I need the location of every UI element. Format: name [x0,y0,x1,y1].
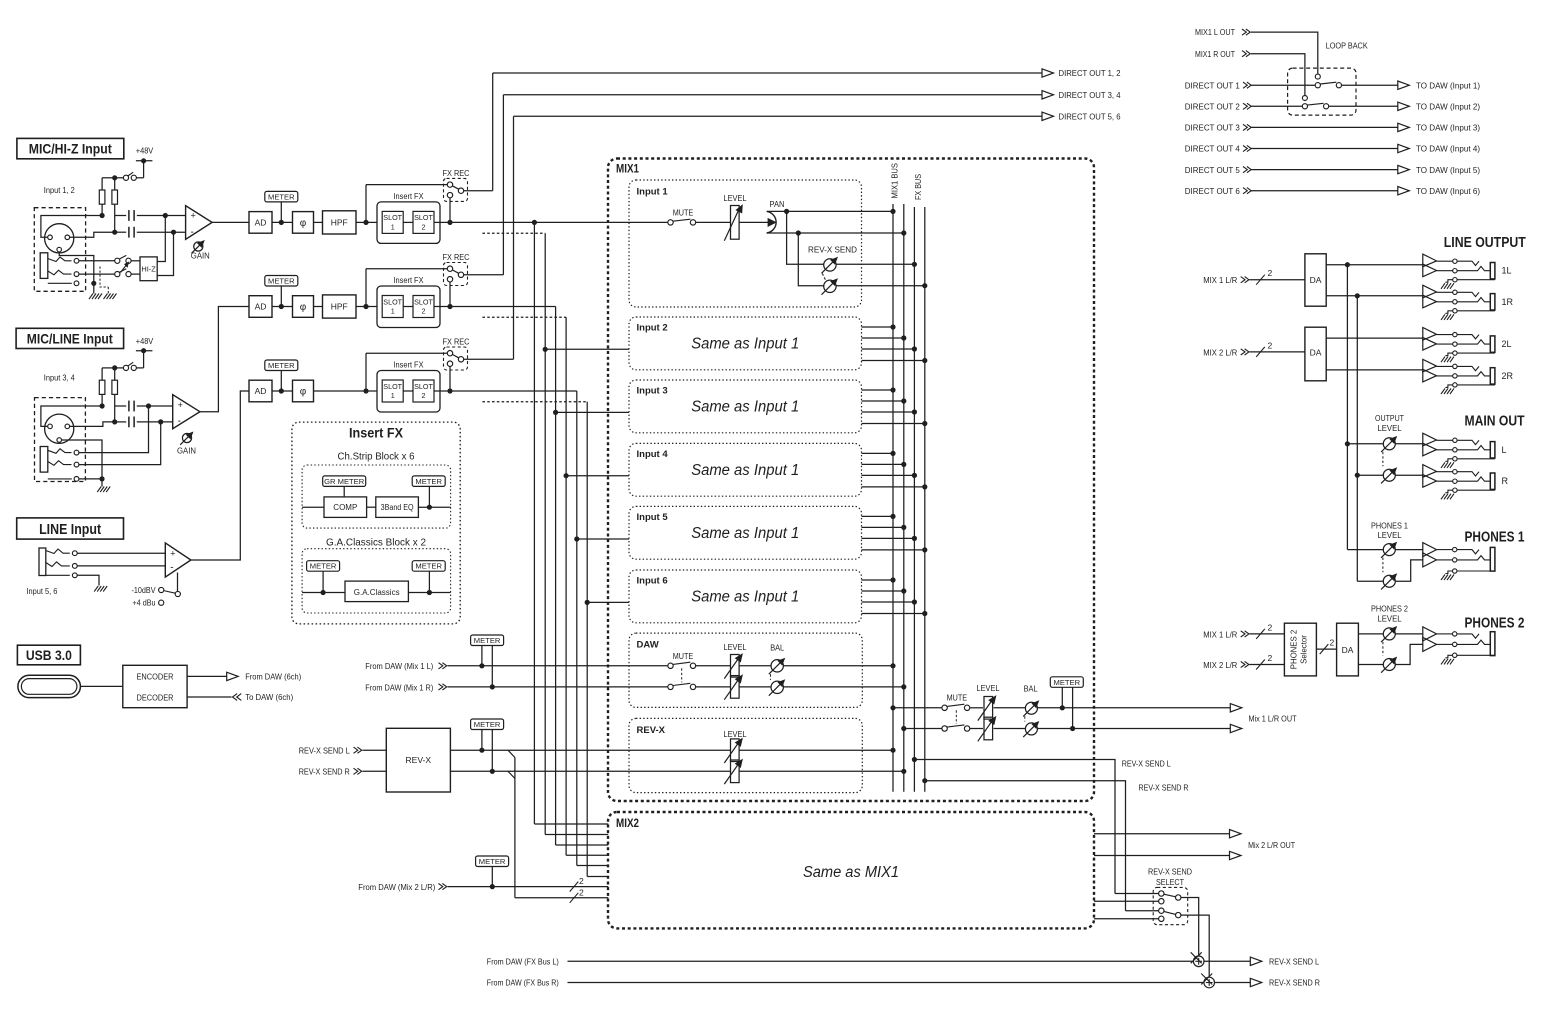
svg-text:METER: METER [268,361,295,370]
svg-text:Same as Input 1: Same as Input 1 [691,336,799,353]
svg-text:Insert FX: Insert FX [394,360,424,370]
svg-text:DIRECT OUT 1: DIRECT OUT 1 [1185,80,1240,90]
svg-text:R: R [1502,476,1509,486]
svg-text:DIRECT OUT 5: DIRECT OUT 5 [1185,165,1240,175]
svg-text:FX REC: FX REC [443,337,470,347]
svg-text:DIRECT OUT 1, 2: DIRECT OUT 1, 2 [1059,68,1121,78]
svg-text:REV-X: REV-X [637,725,666,736]
svg-text:To DAW (6ch): To DAW (6ch) [245,692,293,702]
svg-text:METER: METER [415,562,442,571]
svg-text:+4 dBu: +4 dBu [133,598,156,608]
svg-text:MIX 1 L/R: MIX 1 L/R [1203,629,1237,639]
svg-text:REV-X SEND: REV-X SEND [1148,867,1192,877]
svg-text:Insert FX: Insert FX [394,275,424,285]
svg-text:PHONES 2: PHONES 2 [1371,604,1408,614]
svg-text:DECODER: DECODER [137,693,174,703]
svg-text:HI-Z: HI-Z [141,265,156,274]
svg-text:2: 2 [579,887,584,897]
svg-text:USB 3.0: USB 3.0 [26,647,72,663]
svg-text:+: + [178,400,183,410]
svg-text:Same as Input 1: Same as Input 1 [691,525,799,542]
svg-text:HPF: HPF [331,302,348,312]
svg-text:MAIN OUT: MAIN OUT [1465,414,1525,430]
svg-text:1: 1 [391,222,395,231]
svg-text:+: + [191,211,196,221]
svg-text:MIX2: MIX2 [616,818,639,830]
svg-text:SLOT: SLOT [383,213,402,222]
svg-text:MUTE: MUTE [673,208,694,218]
svg-text:Input 1, 2: Input 1, 2 [44,185,75,195]
svg-text:FX BUS: FX BUS [913,174,923,200]
svg-text:Same as MIX1: Same as MIX1 [803,864,899,881]
svg-text:GAIN: GAIN [177,446,196,456]
svg-text:2: 2 [1268,268,1273,278]
svg-text:2: 2 [1268,622,1273,632]
svg-text:φ: φ [300,218,307,229]
svg-text:LEVEL: LEVEL [1378,423,1402,433]
svg-text:AD: AD [255,217,267,227]
svg-text:MIX1 BUS: MIX1 BUS [890,163,900,199]
svg-text:Selector: Selector [1300,635,1309,664]
svg-text:PHONES 2: PHONES 2 [1290,630,1299,669]
svg-text:METER: METER [479,857,506,866]
svg-text:METER: METER [1054,678,1081,687]
svg-text:METER: METER [474,720,501,729]
svg-text:REV-X SEND L: REV-X SEND L [1269,956,1319,966]
svg-text:-: - [178,416,181,427]
svg-text:FX REC: FX REC [443,168,470,178]
svg-text:1: 1 [391,391,395,400]
svg-text:1L: 1L [1502,266,1512,276]
svg-text:SLOT: SLOT [414,297,433,306]
svg-text:+48V: +48V [136,336,154,346]
svg-text:METER: METER [268,192,295,201]
svg-text:PHONES 1: PHONES 1 [1465,530,1525,546]
svg-text:TO DAW (Input 5): TO DAW (Input 5) [1416,165,1480,175]
svg-text:REV-X SEND: REV-X SEND [808,244,857,254]
svg-text:Same as Input 1: Same as Input 1 [691,399,799,416]
svg-text:DIRECT OUT 3, 4: DIRECT OUT 3, 4 [1059,90,1121,100]
svg-text:SLOT: SLOT [414,213,433,222]
svg-text:DIRECT OUT 4: DIRECT OUT 4 [1185,144,1240,154]
svg-text:LOOP BACK: LOOP BACK [1326,40,1368,50]
svg-text:From DAW (FX Bus L): From DAW (FX Bus L) [487,956,559,966]
svg-text:TO DAW (Input 4): TO DAW (Input 4) [1416,144,1480,154]
svg-text:GAIN: GAIN [191,250,210,260]
svg-text:REV-X SEND L: REV-X SEND L [299,746,350,756]
svg-text:REV-X SEND R: REV-X SEND R [1269,978,1320,988]
svg-text:AD: AD [255,302,267,312]
svg-text:Same as Input 1: Same as Input 1 [691,589,799,606]
svg-text:MIX1: MIX1 [616,164,640,176]
svg-text:LEVEL: LEVEL [1378,613,1402,623]
svg-text:2: 2 [1268,340,1273,350]
svg-text:TO DAW (Input 2): TO DAW (Input 2) [1416,102,1480,112]
svg-text:From DAW (FX Bus R): From DAW (FX Bus R) [487,978,559,988]
svg-text:1: 1 [391,307,395,316]
svg-text:2: 2 [422,391,426,400]
svg-text:From DAW (Mix 1 R): From DAW (Mix 1 R) [365,682,433,692]
svg-text:LEVEL: LEVEL [724,729,747,739]
svg-text:G.A.Classics: G.A.Classics [354,588,400,597]
svg-text:Input 5: Input 5 [637,512,669,523]
svg-text:REV-X SEND L: REV-X SEND L [1122,759,1171,769]
svg-text:+48V: +48V [136,146,154,156]
svg-text:BAL: BAL [1024,684,1038,694]
svg-text:METER: METER [474,636,501,645]
svg-text:φ: φ [300,387,307,398]
svg-text:SELECT: SELECT [1156,877,1184,887]
svg-text:2: 2 [1268,653,1273,663]
svg-text:LEVEL: LEVEL [977,683,1000,693]
svg-text:REV-X SEND R: REV-X SEND R [1139,783,1189,793]
svg-text:LEVEL: LEVEL [1378,530,1402,540]
svg-text:METER: METER [415,477,442,486]
svg-text:Insert FX: Insert FX [394,191,424,201]
svg-text:Input 5, 6: Input 5, 6 [26,586,57,596]
svg-text:2: 2 [422,307,426,316]
svg-text:From DAW (Mix 1 L): From DAW (Mix 1 L) [365,661,433,671]
svg-text:GR METER: GR METER [324,477,365,486]
svg-text:Input 1: Input 1 [637,187,669,198]
svg-text:Same as Input 1: Same as Input 1 [691,462,799,479]
svg-text:PHONES 2: PHONES 2 [1465,615,1525,631]
svg-text:From DAW (6ch): From DAW (6ch) [245,672,301,682]
svg-text:SLOT: SLOT [383,382,402,391]
svg-text:2: 2 [422,222,426,231]
svg-text:OUTPUT: OUTPUT [1375,413,1404,423]
svg-text:MIX 1 L/R: MIX 1 L/R [1203,275,1237,285]
svg-text:TO DAW (Input 6): TO DAW (Input 6) [1416,186,1480,196]
svg-text:DA: DA [1310,275,1322,285]
svg-text:PHONES 1: PHONES 1 [1371,520,1408,530]
svg-text:MIC/HI-Z Input: MIC/HI-Z Input [29,141,112,157]
svg-text:DA: DA [1342,645,1354,655]
svg-text:PAN: PAN [770,199,785,209]
svg-text:MIC/LINE Input: MIC/LINE Input [27,330,113,346]
svg-text:REV-X SEND R: REV-X SEND R [299,767,350,777]
svg-text:SLOT: SLOT [383,297,402,306]
svg-text:MIX 2 L/R: MIX 2 L/R [1203,660,1237,670]
svg-text:HPF: HPF [331,217,348,227]
svg-text:2: 2 [1330,638,1335,648]
svg-text:2L: 2L [1502,339,1512,349]
svg-text:Input 2: Input 2 [637,323,668,334]
svg-text:Input 6: Input 6 [637,576,668,587]
svg-text:LINE Input: LINE Input [39,521,101,538]
svg-text:LEVEL: LEVEL [724,642,747,652]
svg-text:G.A.Classics Block x 2: G.A.Classics Block x 2 [326,536,426,548]
svg-text:COMP: COMP [333,503,357,512]
svg-text:Input 3, 4: Input 3, 4 [44,373,75,383]
svg-text:MIX1 R OUT: MIX1 R OUT [1195,49,1235,59]
svg-text:DIRECT OUT 3: DIRECT OUT 3 [1185,123,1240,133]
svg-text:φ: φ [300,302,307,313]
svg-text:DIRECT OUT 6: DIRECT OUT 6 [1185,186,1240,196]
svg-text:DAW: DAW [637,640,659,651]
svg-text:2: 2 [579,876,584,886]
svg-text:BAL: BAL [770,643,784,653]
svg-text:DIRECT OUT 5, 6: DIRECT OUT 5, 6 [1059,112,1121,122]
svg-text:Input 4: Input 4 [637,449,669,460]
svg-text:METER: METER [310,562,337,571]
svg-text:METER: METER [268,277,295,286]
svg-text:2R: 2R [1502,371,1514,381]
svg-text:MUTE: MUTE [673,651,694,661]
svg-text:From DAW (Mix 2 L/R): From DAW (Mix 2 L/R) [358,882,435,892]
svg-text:SLOT: SLOT [414,382,433,391]
svg-text:Ch.Strip Block x 6: Ch.Strip Block x 6 [338,451,415,463]
svg-text:Input 3: Input 3 [637,386,668,397]
svg-text:DA: DA [1310,347,1322,357]
svg-text:FX REC: FX REC [443,252,470,262]
svg-text:+: + [170,548,175,558]
svg-text:TO DAW (Input 3): TO DAW (Input 3) [1416,123,1480,133]
svg-text:Mix 2 L/R OUT: Mix 2 L/R OUT [1248,840,1295,850]
svg-text:LEVEL: LEVEL [724,193,747,203]
svg-text:LINE OUTPUT: LINE OUTPUT [1444,235,1526,251]
svg-text:1R: 1R [1502,297,1514,307]
svg-text:MUTE: MUTE [947,692,968,702]
svg-text:MIX1 L OUT: MIX1 L OUT [1195,27,1235,37]
svg-text:Insert FX: Insert FX [349,426,403,441]
svg-text:3Band EQ: 3Band EQ [381,503,414,512]
svg-text:DIRECT OUT 2: DIRECT OUT 2 [1185,102,1240,112]
svg-text:-10dBV: -10dBV [132,585,156,595]
svg-text:-: - [191,227,194,238]
svg-text:MIX 2 L/R: MIX 2 L/R [1203,347,1237,357]
svg-text:Mix 1 L/R OUT: Mix 1 L/R OUT [1249,714,1297,724]
svg-text:ENCODER: ENCODER [137,672,174,682]
svg-text:L: L [1502,445,1507,455]
svg-text:REV-X: REV-X [406,755,432,765]
svg-text:TO DAW (Input 1): TO DAW (Input 1) [1416,80,1480,90]
svg-text:-: - [170,563,173,574]
svg-text:AD: AD [255,386,267,396]
